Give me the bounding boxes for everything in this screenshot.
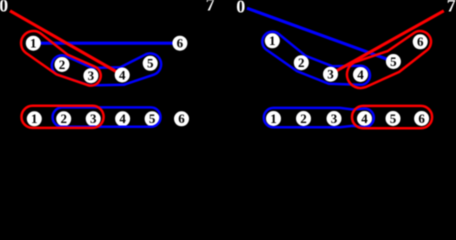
blue interval oval 2-5 (left row) <box>53 107 161 126</box>
left bottom node 6 <box>174 111 189 126</box>
blue loop around nodes 2-5 (left diagram) <box>52 53 161 85</box>
wire: blue chord 0-5 (right diagram) <box>247 8 393 61</box>
right bottom node 3 <box>327 111 342 126</box>
left top node 3 <box>83 68 98 83</box>
left bottom node 5 <box>145 111 160 126</box>
svg-text:1: 1 <box>269 33 276 48</box>
svg-text:0: 0 <box>0 0 8 15</box>
svg-text:7: 7 <box>447 0 456 16</box>
right top node 5 <box>386 54 401 69</box>
svg-text:7: 7 <box>206 0 215 15</box>
left top node 5 <box>143 56 158 71</box>
svg-text:1: 1 <box>31 111 38 126</box>
svg-text:5: 5 <box>390 54 397 69</box>
left bottom node 2 <box>56 111 71 126</box>
svg-text:6: 6 <box>418 111 425 126</box>
svg-text:3: 3 <box>88 68 95 83</box>
svg-text:4: 4 <box>357 67 364 82</box>
svg-text:2: 2 <box>59 57 66 72</box>
svg-text:4: 4 <box>119 111 126 126</box>
right top node 2 <box>294 55 309 70</box>
wire: blue chord 1-6 (left diagram) <box>33 42 180 45</box>
right bottom node 6 <box>414 111 429 126</box>
svg-text:2: 2 <box>298 55 305 70</box>
red interval oval 1-3 (left row) <box>22 106 104 128</box>
svg-text:6: 6 <box>177 36 184 51</box>
red interval oval 4-6 (right row) <box>352 106 432 128</box>
right bottom node 5 <box>386 111 401 126</box>
red loop around nodes 1-3 (left diagram) <box>21 31 101 86</box>
left top node 2 <box>55 57 70 72</box>
svg-text:0: 0 <box>236 0 245 16</box>
left bottom node 3 <box>86 111 101 126</box>
svg-text:1: 1 <box>30 36 37 51</box>
right bottom node 4 <box>357 111 372 126</box>
red loop around nodes 4-6 (right diagram) <box>347 31 431 88</box>
left top node 6 <box>172 36 187 51</box>
right top node 4 <box>353 67 368 82</box>
blue loop around nodes 1-4 (right diagram) <box>262 32 370 85</box>
wire: red chord 0-4 (left diagram) <box>10 11 122 75</box>
svg-text:6: 6 <box>178 111 185 126</box>
svg-text:4: 4 <box>119 67 126 82</box>
left top node 1 <box>26 36 41 51</box>
svg-text:1: 1 <box>270 111 277 126</box>
left top node 4 <box>115 68 130 83</box>
svg-text:6: 6 <box>417 34 424 49</box>
right top node 1 <box>265 33 280 48</box>
svg-text:5: 5 <box>149 111 156 126</box>
svg-text:5: 5 <box>147 56 154 71</box>
svg-text:2: 2 <box>60 111 67 126</box>
right bottom node 2 <box>296 111 311 126</box>
wire: red chord 7-3 (right diagram) <box>331 11 444 74</box>
svg-text:5: 5 <box>390 111 397 126</box>
left bottom node 4 <box>115 111 130 126</box>
left bottom node 1 <box>27 111 42 126</box>
svg-text:3: 3 <box>327 67 334 82</box>
blue interval oval 1-4 (right row) <box>264 108 374 127</box>
right top node 3 <box>323 67 338 82</box>
right bottom node 1 <box>266 111 281 126</box>
right top node 6 <box>413 34 428 49</box>
svg-text:3: 3 <box>90 111 97 126</box>
svg-text:3: 3 <box>331 111 338 126</box>
svg-text:4: 4 <box>361 111 368 126</box>
svg-text:2: 2 <box>300 111 307 126</box>
